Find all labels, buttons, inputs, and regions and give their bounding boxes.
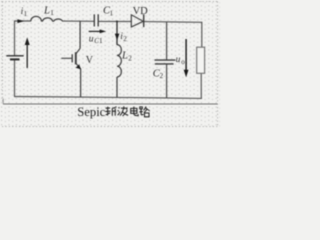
wire: left source branch lower (14, 60, 16, 97)
wire: right load branch upper (201, 22, 203, 47)
svg-text:1: 1 (24, 10, 28, 18)
capacitor C2 (155, 60, 176, 64)
node junction (top of L2 branch) (116, 21, 118, 23)
svg-text:L: L (43, 5, 50, 16)
svg-text:u: u (89, 34, 94, 44)
halftone background (0, 0, 220, 128)
inductor L1 (31, 16, 63, 21)
wire: L2 branch upper with i2 (116, 22, 118, 46)
load resistor R (197, 47, 205, 73)
capacitor C1 (94, 14, 98, 26)
transistor V (IGBT) (61, 21, 80, 97)
rule above caption (3, 103, 218, 105)
emitter arrowhead of V (76, 64, 81, 69)
svg-text:V: V (86, 55, 94, 66)
svg-text:VD: VD (133, 6, 149, 17)
wire: top rail (diode cathode to right corner) (144, 21, 202, 24)
caption: 电 (131, 107, 139, 116)
svg-text:2: 2 (123, 35, 127, 43)
current arrow i2 (115, 34, 120, 41)
wire: L2 branch lower (116, 77, 118, 97)
battery E plates (6, 56, 23, 60)
wire: left source branch upper (14, 21, 16, 55)
voltage arrow uC1 (89, 30, 102, 32)
current arrow i1 (17, 19, 24, 23)
svg-text:1: 1 (99, 37, 103, 45)
wire: top rail left segment (15, 20, 31, 22)
svg-text:2: 2 (128, 55, 132, 63)
wire: top rail middle (L1 to C1) (63, 20, 94, 22)
svg-text:1: 1 (110, 9, 114, 17)
wire: top rail (C1 to diode anode) (99, 20, 132, 22)
svg-text:L: L (121, 51, 128, 62)
caption: 波 (118, 106, 129, 116)
svg-text:u: u (176, 55, 181, 65)
output voltage arrow uo (185, 39, 187, 71)
svg-text:Sepic: Sepic (77, 105, 105, 119)
wire: right load branch lower (200, 73, 202, 98)
caption: 斩 (105, 107, 116, 116)
source voltage arrow (26, 44, 28, 69)
figure frame (faint dotted box) (2, 2, 218, 127)
diode VD (131, 15, 143, 28)
svg-text:2: 2 (160, 72, 164, 80)
svg-text:o: o (181, 58, 185, 66)
inductor L2 (117, 45, 121, 77)
caption: 路 (139, 106, 149, 116)
svg-text:1: 1 (50, 9, 54, 17)
capacitor C2 branch upper wire (166, 22, 168, 60)
wire: bottom rail (15, 97, 202, 99)
capacitor C2 branch lower wire (166, 64, 168, 98)
